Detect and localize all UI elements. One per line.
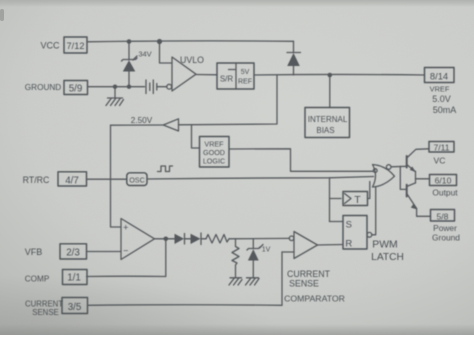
svg-text:Output: Output [432, 188, 458, 198]
svg-text:CURRENT: CURRENT [287, 269, 331, 279]
svg-text:5V: 5V [241, 69, 250, 76]
svg-text:2/3: 2/3 [66, 248, 80, 259]
svg-text:REF: REF [238, 79, 252, 86]
svg-text:7/11: 7/11 [433, 143, 449, 153]
svg-text:VC: VC [434, 156, 446, 166]
svg-text:SENSE: SENSE [32, 308, 58, 317]
svg-text:5/8: 5/8 [437, 212, 449, 222]
svg-text:50mA: 50mA [433, 105, 457, 115]
svg-text:T: T [354, 194, 361, 206]
svg-text:6/10: 6/10 [435, 176, 452, 186]
svg-text:GROUND: GROUND [25, 83, 61, 92]
svg-text:1V: 1V [262, 247, 271, 254]
svg-text:Ground: Ground [432, 233, 460, 243]
svg-text:8/14: 8/14 [430, 71, 448, 82]
svg-text:5/9: 5/9 [69, 84, 83, 95]
svg-text:SENSE: SENSE [289, 279, 319, 289]
svg-text:PWM: PWM [372, 240, 397, 251]
svg-text:COMPARATOR: COMPARATOR [284, 294, 345, 304]
svg-text:4/7: 4/7 [65, 176, 79, 187]
svg-text:7/12: 7/12 [67, 41, 85, 51]
svg-text:34V: 34V [138, 50, 151, 59]
svg-text:VFB: VFB [25, 247, 43, 257]
svg-text:5.0V: 5.0V [432, 94, 451, 104]
svg-text:Power: Power [433, 223, 457, 233]
svg-text:VCC: VCC [40, 41, 60, 51]
svg-text:UVLO: UVLO [180, 55, 204, 65]
svg-text:RT/RC: RT/RC [23, 175, 50, 185]
svg-text:R: R [345, 239, 352, 250]
svg-text:−: − [123, 246, 128, 256]
svg-text:VREF: VREF [430, 85, 450, 94]
svg-text:S/R: S/R [220, 75, 234, 84]
svg-text:INTERNAL: INTERNAL [308, 115, 348, 124]
svg-text:LOGIC: LOGIC [203, 157, 225, 166]
svg-text:LATCH: LATCH [371, 252, 404, 263]
svg-text:S: S [346, 220, 352, 231]
svg-text:COMP: COMP [25, 275, 50, 284]
svg-text:1/1: 1/1 [67, 273, 81, 284]
svg-text:OSC: OSC [129, 176, 145, 185]
svg-text:2.50V: 2.50V [131, 116, 153, 125]
svg-text:BIAS: BIAS [316, 126, 334, 135]
svg-text:+: + [123, 223, 128, 233]
svg-text:3/5: 3/5 [68, 302, 82, 313]
